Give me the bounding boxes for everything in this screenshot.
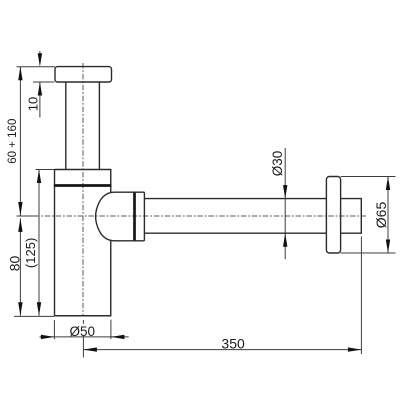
arrow down at rosette bottom [386,240,390,254]
svg-text:10: 10 [26,97,41,111]
horizontal centerline of outlet pipe [23,215,366,217]
arrow down at centerline [18,202,22,216]
arrow down at pipe top [283,185,287,199]
arrow left at 350 start [83,347,97,351]
svg-text:350: 350 [221,335,245,351]
dimension Ø65 line [387,177,389,254]
trap body (cup) outline [55,170,111,316]
dimension 80 line [19,218,21,315]
horizontal outlet pipe [144,199,326,234]
extension line at rosette top [341,176,396,178]
body nut seam (thick line) [54,184,112,187]
arrow down at flange top [38,53,42,66]
svg-text:Ø30: Ø30 [270,151,285,177]
arrow up at pipe bottom [283,233,287,247]
svg-text:(125): (125) [23,238,38,268]
extension line at body top [36,169,55,171]
extension line at rosette bottom [341,252,396,254]
arrow up toward centerline [18,218,22,232]
dimension 10 line [39,51,41,118]
pipe stub beyond wall rosette [341,199,362,234]
dimension Ø30 line [284,148,286,259]
arrow up at flange top [18,67,22,81]
extension line at flange top [17,66,56,68]
top flange (escutcheon) [55,67,112,82]
extension line below cup left corner [53,320,55,339]
extension line below pipe centerline (350 left) [82,320,84,358]
vertical centerline of trap body [82,63,84,316]
svg-text:80: 80 [7,256,23,272]
dimension 60+160 line [19,67,21,216]
arrow down at cup bottom [18,302,22,316]
outlet nut right edge [143,192,145,241]
arrow right at cup left [41,335,55,339]
extension line below cup right corner [110,320,112,339]
arrow down at cup bottom [37,302,41,316]
nut top and bottom edges [134,192,145,241]
arrow up at body top [37,170,41,184]
elbow cap (rounded outlet of body) [96,192,134,241]
arrow left at cup right [111,335,125,339]
svg-text:Ø50: Ø50 [70,324,96,339]
svg-text:Ø65: Ø65 [373,202,389,229]
extension line below pipe end (350 right) [360,237,362,355]
extension line at centerline level [17,215,38,217]
arrow up at rosette top [386,177,390,191]
extension line at cup bottom [14,315,54,317]
label Ø50 [70,324,96,336]
arrow up at flange bottom [38,82,42,96]
wall rosette flange [326,177,340,254]
dimension (125) line [38,170,40,316]
outlet nut thick left edge [133,192,136,242]
vertical inlet pipe [66,82,100,170]
arrow right at 350 end [348,347,362,351]
extension line at flange bottom [33,81,55,83]
svg-text:60 + 160: 60 + 160 [7,119,19,164]
dimension 350 line [83,349,361,351]
dimension Ø50 line [40,336,129,338]
